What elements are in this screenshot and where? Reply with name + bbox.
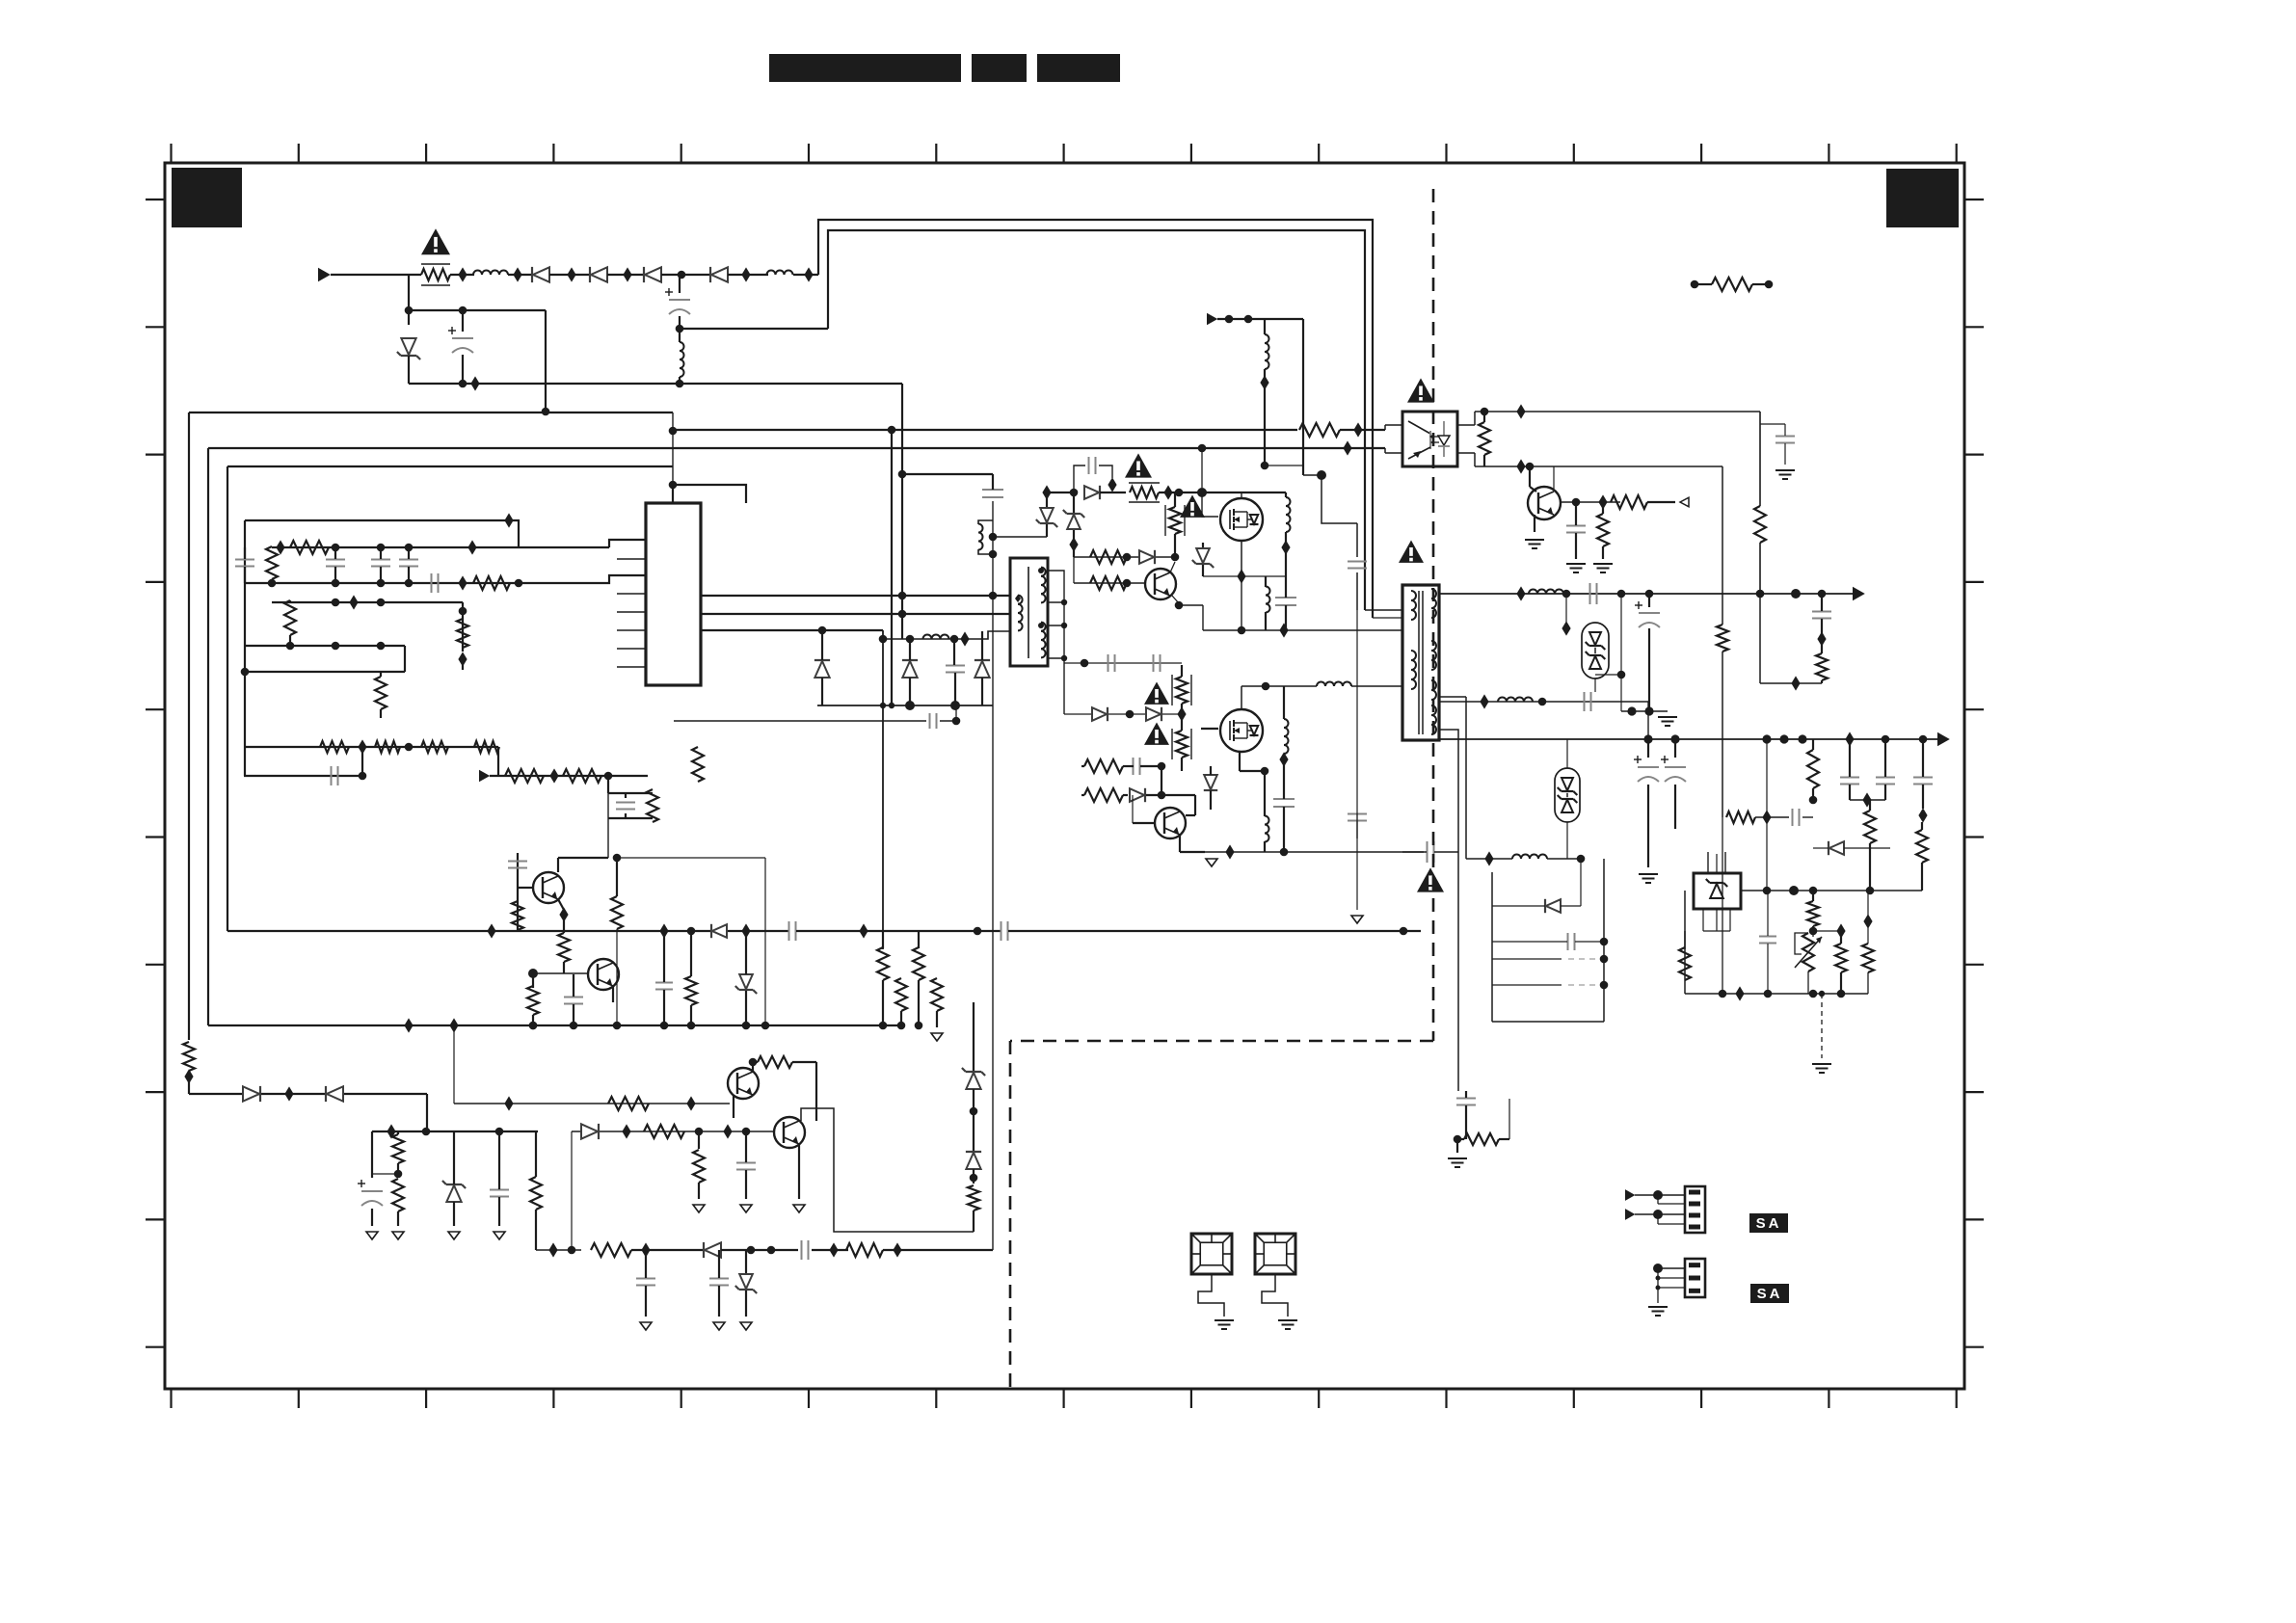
wire	[372, 1131, 538, 1132]
resistor	[1084, 788, 1123, 802]
ground	[494, 1232, 505, 1239]
row y848	[1726, 811, 1755, 823]
node	[1317, 470, 1326, 480]
junction	[1836, 923, 1845, 938]
transistor Q	[588, 959, 619, 990]
label SA	[1750, 1284, 1789, 1303]
electrolytic capacitor	[665, 288, 690, 314]
node	[880, 703, 886, 708]
wire	[1869, 800, 1871, 891]
diode	[581, 1124, 599, 1139]
wire	[1172, 596, 1179, 603]
junction	[559, 907, 568, 921]
node	[1627, 706, 1636, 715]
node	[405, 743, 414, 752]
wire	[1475, 466, 1722, 467]
junction	[184, 1069, 193, 1083]
capacitor	[1840, 778, 1859, 785]
diode	[814, 660, 830, 678]
wire	[1553, 466, 1555, 491]
node	[1481, 408, 1489, 416]
wire	[1201, 728, 1218, 730]
resistor	[644, 1125, 684, 1138]
wire	[558, 899, 564, 910]
ground	[640, 1322, 652, 1330]
wire	[1180, 835, 1205, 852]
wire	[1561, 501, 1620, 503]
node	[377, 642, 386, 651]
wire	[1285, 576, 1287, 630]
wire	[883, 1249, 993, 1251]
wire	[517, 853, 519, 931]
capacitor	[1154, 654, 1161, 672]
resistor	[647, 789, 658, 822]
junction	[741, 267, 750, 281]
wire	[1048, 571, 1064, 714]
junction	[467, 540, 476, 554]
resistor	[474, 741, 499, 753]
main transformer T2	[1402, 585, 1439, 740]
wire	[973, 1089, 974, 1152]
node	[1653, 1210, 1663, 1219]
resistor	[284, 600, 296, 635]
wire	[607, 776, 609, 793]
wire	[1439, 697, 1466, 859]
signal arrow	[479, 770, 490, 783]
IC pin stub	[617, 629, 646, 631]
wire	[1922, 739, 1924, 809]
wire	[1755, 816, 1789, 818]
node	[898, 610, 907, 619]
node	[669, 427, 678, 436]
wire	[1081, 765, 1161, 767]
ground	[740, 1205, 752, 1212]
capacitor	[946, 666, 965, 673]
wire	[1099, 466, 1112, 478]
wire bus	[208, 447, 1385, 449]
wire	[1202, 605, 1204, 630]
junction	[449, 1018, 458, 1032]
wire	[690, 931, 692, 1025]
node	[495, 1128, 504, 1136]
optocoupler U	[1402, 412, 1457, 466]
wire	[793, 274, 818, 276]
wire	[1759, 451, 1761, 594]
wire	[1356, 610, 1358, 838]
resistor	[1862, 944, 1874, 972]
wire	[404, 646, 406, 672]
wire	[728, 274, 768, 276]
mosfet Q (bottom)	[1220, 709, 1263, 752]
wire row	[1074, 582, 1145, 584]
capacitor	[789, 921, 796, 941]
wire	[1465, 1091, 1467, 1139]
resistor	[1611, 495, 1647, 509]
isolation barrier dashed	[1010, 1040, 1433, 1043]
node	[1617, 590, 1626, 599]
node	[989, 533, 998, 542]
node	[767, 1246, 776, 1255]
wire	[1081, 794, 1195, 796]
wire	[973, 1211, 974, 1232]
wire	[572, 1131, 774, 1132]
fusible resistor	[1172, 729, 1191, 759]
node	[1562, 590, 1571, 599]
opto input resistor	[1299, 423, 1340, 437]
chassis mount	[1255, 1234, 1295, 1274]
wire	[1620, 675, 1622, 711]
node	[669, 481, 678, 490]
transistor Q	[1155, 808, 1186, 838]
wire	[397, 1211, 399, 1226]
node	[1762, 734, 1771, 743]
wire	[289, 600, 291, 646]
resistor	[266, 546, 278, 579]
wire	[397, 1131, 399, 1174]
node	[528, 969, 538, 978]
wire	[1483, 412, 1485, 466]
wire	[272, 546, 280, 548]
inductor	[1284, 719, 1289, 754]
resistor	[1916, 830, 1928, 863]
wire	[1530, 466, 1536, 492]
wire output rail	[1439, 593, 1855, 595]
wire	[1620, 674, 1622, 676]
wire	[1849, 739, 1851, 800]
capacitor	[709, 1279, 729, 1286]
inductor	[1266, 587, 1270, 613]
node	[394, 1170, 403, 1179]
node	[695, 1128, 704, 1136]
wire	[608, 775, 648, 777]
node	[359, 772, 367, 781]
node	[1670, 734, 1679, 743]
junction	[623, 267, 631, 281]
ground	[448, 1232, 460, 1239]
wire	[1073, 540, 1075, 557]
wire	[701, 629, 883, 631]
wire	[1262, 1274, 1288, 1317]
wire row E	[245, 671, 405, 673]
wire	[1456, 1139, 1458, 1153]
title bar (redacted)	[769, 54, 961, 82]
resistor	[1464, 1133, 1499, 1145]
wire	[745, 931, 747, 1025]
node	[1262, 682, 1270, 691]
zener diode	[1192, 548, 1214, 568]
wire	[1722, 466, 1723, 625]
Y-capacitor	[1348, 562, 1367, 569]
wire	[371, 1209, 373, 1226]
diode D3	[644, 267, 661, 282]
resistor	[512, 901, 523, 930]
wire	[1186, 795, 1195, 815]
node	[1617, 671, 1626, 679]
node	[1765, 280, 1774, 289]
wire	[450, 274, 474, 276]
wire	[1658, 1278, 1685, 1288]
diode	[1545, 899, 1561, 913]
warning triangle	[1417, 867, 1444, 891]
ground	[693, 1205, 705, 1212]
node	[678, 271, 686, 279]
capacitor	[564, 998, 583, 1004]
node	[405, 544, 414, 552]
wire	[409, 383, 902, 385]
ground	[793, 1205, 805, 1212]
wire	[993, 536, 1047, 538]
wire	[1492, 905, 1581, 907]
node	[1061, 623, 1067, 628]
resistor	[611, 896, 623, 929]
wire row	[883, 638, 969, 640]
junction	[1918, 808, 1927, 822]
inductor	[680, 342, 684, 377]
resistor	[895, 978, 907, 1011]
wire	[1766, 739, 1768, 891]
node	[1656, 1286, 1661, 1290]
wire	[1340, 429, 1385, 431]
wire	[891, 430, 893, 705]
junction	[458, 575, 467, 590]
resistor	[1090, 576, 1127, 590]
node	[422, 1128, 431, 1136]
resistor	[375, 741, 400, 753]
junction	[859, 923, 868, 938]
wire	[1703, 930, 1730, 932]
wire	[1457, 852, 1459, 1091]
capacitor	[432, 573, 439, 593]
diode	[704, 1242, 721, 1258]
wire	[1698, 283, 1765, 285]
wire	[674, 720, 926, 722]
wire bus	[188, 412, 190, 1040]
wire	[371, 1131, 373, 1178]
wire bus	[208, 1024, 901, 1026]
frame tick marks	[146, 144, 1984, 1408]
capacitor	[1348, 814, 1367, 821]
inductor	[1317, 682, 1351, 687]
wire	[189, 1093, 427, 1095]
node	[1261, 767, 1269, 776]
wire	[1921, 886, 1923, 891]
wire	[940, 720, 956, 722]
inductor	[1512, 855, 1547, 860]
junction	[458, 267, 467, 281]
electrolytic capacitor	[1635, 601, 1660, 627]
resistor	[392, 1179, 404, 1211]
fusible resistor R	[421, 264, 450, 285]
node	[268, 579, 277, 588]
wire bus	[796, 930, 1001, 932]
wire	[1635, 1194, 1685, 1196]
capacitor	[332, 766, 338, 785]
warning triangle	[1125, 453, 1152, 477]
wire	[462, 602, 464, 652]
ground	[1566, 564, 1586, 572]
AC input arrow	[318, 268, 331, 281]
capacitor	[490, 1190, 509, 1197]
node	[970, 1174, 978, 1183]
wire	[1046, 492, 1048, 537]
resistor	[1864, 811, 1876, 843]
node	[613, 1022, 622, 1030]
capacitor	[1759, 937, 1776, 944]
wire	[1439, 730, 1458, 852]
inductor	[978, 524, 983, 550]
node	[241, 668, 250, 677]
wire	[1283, 763, 1285, 852]
wire	[1385, 448, 1402, 453]
resistor	[693, 1150, 705, 1183]
wire	[1365, 609, 1402, 611]
wire	[571, 1131, 573, 1250]
node	[529, 1022, 538, 1030]
resistor	[1717, 625, 1728, 652]
wire	[882, 931, 884, 1025]
border frame	[165, 163, 1964, 1389]
resistor	[1479, 422, 1490, 455]
inductor	[1265, 334, 1269, 369]
wire	[1241, 576, 1242, 630]
node	[889, 703, 894, 708]
wire	[1373, 617, 1402, 619]
wire	[1635, 1213, 1685, 1215]
wire	[1760, 424, 1785, 465]
ground	[1775, 470, 1795, 479]
junction	[1791, 676, 1800, 690]
wire	[680, 328, 828, 330]
wire	[1648, 594, 1650, 711]
node	[1261, 462, 1269, 470]
resistor	[290, 541, 329, 554]
wire row G	[244, 775, 362, 777]
transistor Q	[728, 1068, 759, 1099]
resistor	[1807, 901, 1819, 926]
wire	[490, 775, 608, 777]
wire	[733, 1095, 734, 1118]
capacitor	[1913, 778, 1933, 785]
wire	[1647, 739, 1649, 867]
wire	[1048, 601, 1064, 603]
junction	[804, 267, 813, 281]
node	[1764, 990, 1773, 998]
wire bus	[227, 466, 673, 467]
resistor	[473, 576, 510, 590]
junction	[1484, 851, 1493, 865]
wire bus	[227, 930, 788, 932]
wire	[558, 776, 608, 872]
IC pin stub	[617, 539, 646, 541]
grid label box top-right	[1886, 169, 1959, 227]
wire	[969, 631, 1010, 639]
node	[1123, 553, 1132, 562]
wire bus	[1008, 930, 1421, 932]
wire	[673, 429, 1297, 431]
capacitor	[1456, 1099, 1476, 1105]
ground	[1648, 1307, 1668, 1316]
wire	[1181, 665, 1183, 771]
wire row	[1064, 662, 1182, 664]
wire	[821, 630, 823, 705]
node	[749, 1058, 758, 1067]
wire	[1283, 686, 1285, 756]
diode	[974, 660, 990, 678]
wire	[334, 547, 336, 583]
wire	[1813, 847, 1890, 849]
wire	[1821, 594, 1823, 683]
wire	[533, 973, 588, 988]
wire	[1492, 1021, 1604, 1023]
node	[1280, 848, 1289, 857]
node	[570, 1022, 578, 1030]
wire	[1457, 453, 1475, 466]
wire	[549, 274, 590, 276]
wire	[1647, 702, 1649, 739]
wire	[828, 230, 1365, 610]
connector J1	[1685, 1186, 1705, 1233]
node	[761, 1022, 770, 1030]
junction	[1845, 732, 1854, 746]
capacitor	[399, 560, 418, 567]
junction	[723, 1124, 732, 1138]
label SA	[1749, 1213, 1788, 1233]
open arrow out	[1680, 497, 1689, 507]
resistor	[1084, 759, 1123, 773]
wire	[1658, 1214, 1685, 1224]
node	[1791, 589, 1801, 599]
junction	[1042, 485, 1051, 499]
resistor	[931, 978, 943, 1011]
diode	[902, 660, 918, 678]
wire rail	[1205, 851, 1424, 853]
junction	[387, 1124, 395, 1138]
wire	[1568, 984, 1604, 986]
wire	[812, 1249, 848, 1251]
mosfet Q (top)	[1220, 498, 1263, 541]
capacitor	[235, 560, 254, 567]
diode	[1139, 550, 1155, 564]
wire	[718, 1250, 720, 1317]
node	[1809, 796, 1818, 805]
junction	[504, 513, 513, 527]
wire	[1534, 515, 1535, 532]
resistor	[1807, 750, 1819, 788]
node	[1719, 990, 1727, 998]
wire bus	[227, 466, 228, 931]
electrolytic capacitor	[358, 1180, 383, 1206]
wire	[608, 793, 653, 818]
node	[1653, 1190, 1663, 1200]
node	[332, 579, 340, 588]
wire rail	[1685, 993, 1868, 995]
wire	[1264, 319, 1266, 466]
wire	[1674, 739, 1676, 829]
wire	[361, 747, 363, 776]
node	[1244, 315, 1253, 324]
node	[529, 1022, 538, 1030]
wire	[1457, 412, 1475, 425]
node	[515, 579, 523, 588]
mosfet source wire	[1241, 541, 1242, 576]
wire row D	[245, 645, 405, 647]
wire row	[1064, 713, 1178, 715]
node	[459, 306, 467, 315]
wire	[1133, 795, 1155, 823]
junction	[1516, 459, 1525, 473]
node	[898, 592, 907, 600]
wire	[721, 1249, 798, 1251]
